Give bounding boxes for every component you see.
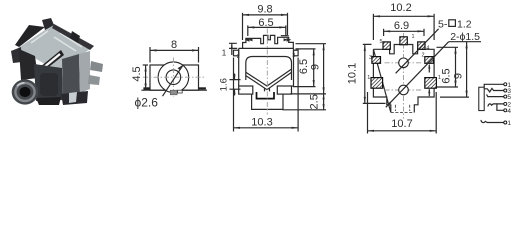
front-left face: [19, 49, 38, 80]
bottom protrusion: [252, 94, 283, 109]
hole 2: [399, 85, 409, 95]
dimension 8 line: [150, 49, 199, 51]
dimension 6.9 line: [384, 30, 424, 32]
dimension 10.2 extension lines: [372, 14, 374, 40]
horizontal centerline: [143, 76, 205, 78]
top face streak highlights: [31, 31, 82, 51]
dimension 1.6 arrows: [234, 74, 236, 80]
leg right upper: [90, 61, 103, 72]
switch contact pin2: [488, 104, 504, 106]
svg-text:1: 1: [222, 48, 227, 57]
V spring outer: [246, 73, 291, 90]
node pin3: [504, 89, 507, 92]
dimension 6.5 top line: [248, 26, 286, 28]
plug barrel: [479, 87, 484, 110]
top shield face: [18, 24, 94, 72]
dimension 10.7 extension lines: [367, 92, 369, 134]
barrel outer: [12, 79, 39, 104]
body top edge: [239, 47, 294, 49]
svg-text:2-ϕ1.5: 2-ϕ1.5: [450, 31, 480, 43]
svg-text:4: 4: [507, 108, 511, 115]
housing inner shade: [40, 73, 58, 96]
small arrow under mid-right pad: [428, 65, 430, 73]
svg-text:5: 5: [507, 94, 511, 101]
svg-text:9.8: 9.8: [257, 3, 272, 15]
dimension 10.2 line: [373, 15, 434, 17]
right side light slab: [79, 51, 90, 93]
left side tab: [234, 50, 239, 56]
sleeve contact pin1 bottom: [481, 120, 504, 122]
wire pin2-pin4 joint: [497, 104, 504, 110]
dimension 6.5 top extension lines: [247, 25, 249, 36]
node pin1 bottom: [504, 121, 507, 124]
svg-text:6.9: 6.9: [394, 20, 409, 32]
dimension 10.1 line: [364, 44, 366, 103]
pad 1 top-center: [400, 37, 407, 45]
svg-text:10.1: 10.1: [347, 63, 359, 84]
right side dark slab: [62, 54, 80, 99]
svg-text:1.2: 1.2: [457, 18, 472, 30]
barrel glint: [17, 83, 25, 86]
wire pin1 top: [484, 84, 504, 87]
dimension 9.8 line: [243, 14, 288, 16]
pad top-left: [383, 42, 390, 49]
svg-text:1: 1: [507, 120, 511, 127]
nub top: [42, 18, 54, 30]
small step right of tab: [178, 90, 183, 93]
dimension 6.9 extension lines: [383, 29, 385, 36]
svg-text:5: 5: [379, 39, 382, 45]
fold tab marks right: [287, 38, 292, 42]
right side tab: [294, 50, 299, 56]
svg-text:9: 9: [309, 64, 321, 70]
svg-text:2: 2: [421, 53, 424, 59]
body outline front view: [150, 65, 199, 90]
svg-text:8: 8: [171, 39, 177, 51]
bottom right feet dark: [61, 91, 88, 105]
dark edge NE thick: [52, 24, 94, 50]
barrel inner circle: [166, 70, 181, 85]
dimension 2.5 extension line bottom: [283, 109, 327, 111]
pad top-right: [418, 42, 425, 49]
bottom body sliver: [36, 97, 61, 105]
horizontal centerline hole2: [385, 89, 423, 91]
VIEW4: footprint view: [347, 2, 482, 134]
dimension 9 extension lines: [290, 44, 326, 94]
wire pin5: [487, 95, 504, 97]
dimension 9 line: [323, 44, 325, 94]
VIEW2: front view: [131, 39, 207, 110]
svg-text:4: 4: [426, 45, 429, 51]
leader line phi 2.6: [163, 65, 184, 96]
left mounting foot: [143, 87, 150, 90]
svg-text:5-: 5-: [438, 18, 448, 30]
horizontal centerline hole1: [385, 62, 423, 64]
dimension 4.5 extension lines: [143, 64, 148, 66]
dimension 6.5 bottom extension: [437, 86, 458, 88]
shield cap line right block: [281, 35, 289, 37]
barrel outer circle: [158, 62, 189, 93]
barrel housing block: [34, 64, 63, 101]
right mounting foot: [199, 87, 206, 89]
dimension 9 bottom extension: [440, 96, 469, 98]
svg-text:3: 3: [292, 53, 295, 59]
node pin5: [504, 95, 507, 98]
svg-text:ϕ2.6: ϕ2.6: [135, 96, 159, 110]
svg-text:10.3: 10.3: [251, 117, 272, 129]
vertical centerline view4: [403, 33, 405, 119]
svg-text:1: 1: [367, 75, 370, 81]
center bottom tab gray: [170, 90, 177, 95]
inner U step: [257, 92, 275, 99]
label shelf line: [449, 41, 481, 43]
footprint outline: [373, 45, 434, 113]
foot light notch: [69, 92, 77, 103]
svg-text:6.5: 6.5: [441, 68, 453, 83]
dimension 6.5 right extension lines: [293, 49, 316, 87]
svg-text:6.5: 6.5: [258, 17, 273, 29]
contact spring pin3: [484, 88, 504, 92]
white V highlight: [27, 54, 60, 71]
node pin2: [504, 102, 507, 105]
leader 5-sq1.2 through hole1: [396, 29, 439, 74]
svg-text:3: 3: [369, 55, 372, 61]
dimension 10.1 extension lines: [363, 44, 386, 103]
SCHEMATIC: contact schematic: [479, 82, 512, 127]
svg-text:10.7: 10.7: [391, 118, 412, 130]
dimension 8 extension lines: [149, 47, 151, 63]
inner housing rounded: [246, 57, 292, 81]
right foot box: [277, 86, 291, 94]
dimension 4.5 line: [145, 65, 147, 90]
dimension 6.5 line view4: [455, 47, 457, 87]
svg-text:10.2: 10.2: [390, 2, 411, 14]
base line: [141, 89, 207, 91]
svg-text:1.6: 1.6: [218, 78, 229, 91]
dimension 2.5 line: [323, 94, 325, 110]
pad bottom-right: [425, 78, 437, 89]
PHOTO: 3D isometric photo of SMD phone jack: [11, 18, 103, 105]
node pin1 top: [504, 83, 507, 86]
dimension 1 extension lines: [229, 43, 237, 48]
left foot box: [239, 86, 253, 94]
dimension 10.3 extension lines: [233, 58, 235, 132]
vertical centerline view3: [266, 29, 268, 115]
svg-text:2.5: 2.5: [308, 94, 320, 109]
dimension 9 line view4: [466, 42, 468, 97]
node pin4: [504, 109, 507, 112]
dark V marking: [20, 50, 64, 73]
svg-text:4.5: 4.5: [131, 66, 143, 81]
pad bottom-left: [371, 78, 383, 89]
dark edge NW: [15, 25, 45, 47]
pad mid-right: [425, 57, 434, 64]
dimension 6.5 right line: [313, 49, 315, 87]
dimension 9.8 extension lines: [242, 13, 244, 40]
body side walls: [239, 48, 294, 86]
svg-text:9: 9: [452, 73, 464, 79]
dimension 1 arrow line: [231, 43, 233, 55]
V neck: [265, 88, 270, 91]
shield top castellated profile: [243, 35, 294, 48]
small arrow under bottom-right pad: [428, 89, 430, 96]
hidden step dashes: [391, 105, 415, 113]
leg right lower: [88, 75, 100, 85]
left tab: [11, 47, 22, 63]
hole 1: [399, 58, 409, 68]
VIEW3: top view: [218, 3, 326, 131]
nub NE: [70, 31, 80, 43]
svg-text:6.5: 6.5: [298, 59, 310, 74]
pad mid-left: [372, 57, 381, 64]
leader through hole2: [386, 42, 449, 108]
vertical centerline: [172, 58, 174, 97]
V spring inner: [246, 69, 291, 86]
barrel ring: [15, 83, 34, 101]
dimension 6.5 top extension: [437, 46, 459, 48]
dimension 1.6 extension lines: [230, 80, 241, 90]
barrel hole: [20, 87, 31, 97]
bottom edge segment right: [292, 85, 294, 87]
svg-text:2: 2: [237, 54, 240, 60]
svg-text:1: 1: [412, 34, 415, 40]
fold tab marks left: [245, 38, 250, 42]
dimension 10.7 line: [368, 130, 437, 132]
dimension 10.3 line: [234, 127, 299, 129]
